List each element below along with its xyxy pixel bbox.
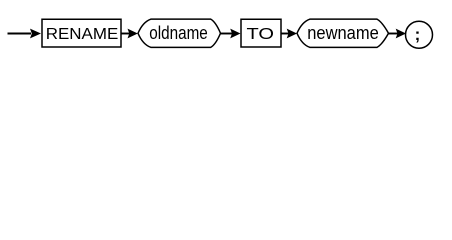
svg-text:RENAME: RENAME [46, 26, 119, 43]
svg-text:;: ; [415, 25, 421, 44]
svg-text:TO: TO [247, 26, 275, 43]
svg-text:oldname: oldname [149, 22, 208, 43]
svg-text:newname: newname [307, 22, 379, 43]
